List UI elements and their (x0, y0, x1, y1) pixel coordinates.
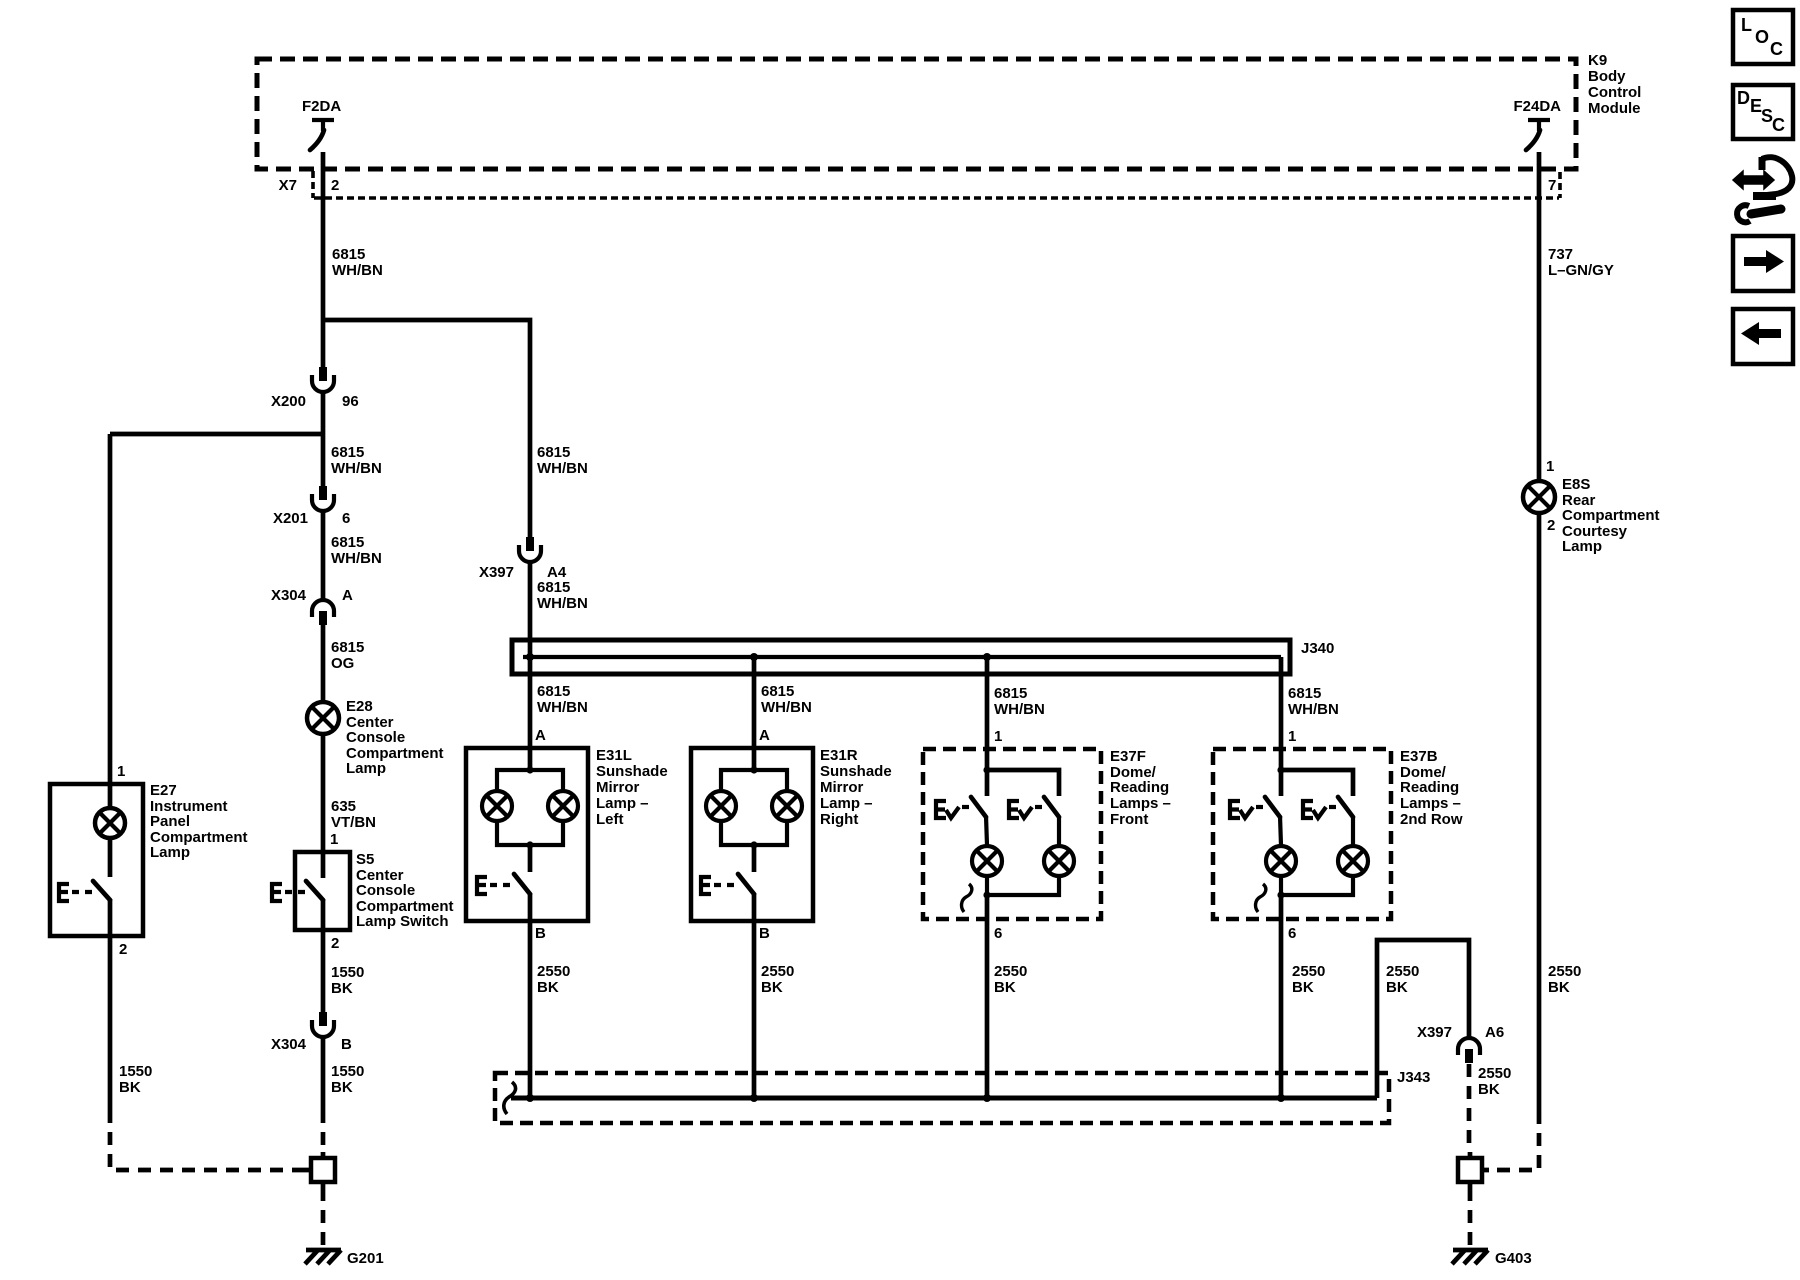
svg-text:6: 6 (994, 925, 1002, 942)
svg-text:BK: BK (537, 979, 559, 996)
svg-text:BK: BK (994, 979, 1016, 996)
svg-text:6815: 6815 (332, 246, 365, 263)
wire label 6815 WH/BN (E37F) (994, 685, 1045, 718)
svg-text:2550: 2550 (994, 963, 1027, 980)
E31R junction node top (750, 766, 757, 773)
svg-text:1550: 1550 (331, 1063, 364, 1080)
svg-text:Lamps –: Lamps – (1400, 795, 1461, 812)
svg-text:BK: BK (1478, 1081, 1500, 1098)
svg-text:2550: 2550 (761, 963, 794, 980)
svg-text:O: O (1755, 27, 1769, 47)
svg-text:L–GN/GY: L–GN/GY (1548, 262, 1614, 279)
svg-text:1550: 1550 (119, 1063, 152, 1080)
svg-text:6815: 6815 (331, 444, 364, 461)
svg-text:737: 737 (1548, 246, 1573, 263)
svg-text:Panel: Panel (150, 813, 190, 830)
E31R junction node bottom (750, 841, 757, 848)
switch S5 contact (272, 881, 323, 901)
svg-text:Control: Control (1588, 84, 1641, 101)
svg-text:Lamps –: Lamps – (1110, 795, 1171, 812)
E37F exit wire to J343 (985, 895, 990, 1098)
svg-text:E27: E27 (150, 782, 177, 799)
lamp E31L box (466, 748, 588, 921)
LOC icon box (1733, 10, 1793, 64)
wire E28 to S5 (321, 734, 326, 878)
wire J340 to E37B (1279, 657, 1284, 770)
E37F switch 2 (1009, 797, 1059, 818)
svg-text:E8S: E8S (1562, 476, 1590, 493)
svg-text:2: 2 (1547, 517, 1555, 534)
dome lamp E37F dashed box (923, 749, 1101, 919)
svg-text:X201: X201 (273, 510, 308, 527)
svg-text:A6: A6 (1485, 1024, 1504, 1041)
svg-text:1: 1 (1546, 458, 1554, 475)
svg-text:B: B (341, 1036, 352, 1053)
svg-text:BK: BK (1292, 979, 1314, 996)
junction node (J343 / E37B) (1277, 1094, 1285, 1102)
svg-text:6815: 6815 (761, 683, 794, 700)
connector X397 pin A6 (1417, 1024, 1504, 1063)
svg-text:Reading: Reading (1400, 779, 1459, 796)
ground G201 (305, 1250, 384, 1267)
wire label 2550 BK (E37B) (1292, 963, 1325, 996)
svg-text:Reading: Reading (1110, 779, 1169, 796)
wire label 6815 WH/BN (331, 444, 382, 477)
svg-text:BK: BK (331, 1079, 353, 1096)
E37B junction node top (1277, 766, 1284, 773)
svg-text:X200: X200 (271, 393, 306, 410)
svg-text:G201: G201 (347, 1250, 384, 1267)
switch S5 box (295, 852, 350, 930)
svg-text:Lamp: Lamp (346, 760, 386, 777)
svg-text:Sunshade: Sunshade (596, 763, 668, 780)
ground junction splice square (left) (304, 1152, 335, 1188)
junction node (J343 / E37F) (983, 1094, 991, 1102)
E37B lamp 1 (1266, 816, 1296, 895)
wire label 2550 BK (E37F) (994, 963, 1027, 996)
svg-text:A: A (535, 727, 546, 744)
svg-text:WH/BN: WH/BN (994, 701, 1045, 718)
E37F lamp 1 (972, 816, 1002, 895)
E31R lamp 2 (772, 791, 802, 821)
wire X201 to X304 (321, 512, 326, 599)
E31L Sunshade Mirror Lamp Left label (596, 747, 668, 828)
junction node (J343 / E31L) (526, 1094, 534, 1102)
svg-text:B: B (535, 925, 546, 942)
E37F twist hook (962, 884, 972, 912)
svg-text:Console: Console (346, 729, 405, 746)
svg-text:1: 1 (330, 831, 338, 848)
E31R lamp bridge top (721, 770, 787, 790)
svg-text:G403: G403 (1495, 1250, 1532, 1267)
connector X304 pin A (271, 587, 353, 625)
svg-text:1550: 1550 (331, 964, 364, 981)
E27 internal wire (108, 838, 113, 877)
E37B junction node bottom (1277, 891, 1284, 898)
svg-text:BK: BK (119, 1079, 141, 1096)
svg-text:6815: 6815 (537, 444, 570, 461)
E31R center wire (752, 845, 757, 872)
svg-text:Lamp –: Lamp – (820, 795, 873, 812)
svg-text:Front: Front (1110, 811, 1148, 828)
svg-text:BK: BK (761, 979, 783, 996)
svg-text:WH/BN: WH/BN (537, 460, 588, 477)
svg-text:F2DA: F2DA (302, 98, 341, 115)
dashed ground wire from X397 A6 (1467, 1064, 1472, 1152)
wire label 6815 WH/BN (E37B) (1288, 685, 1339, 718)
junction node (J340 / X397 branch) (526, 653, 534, 661)
svg-text:2: 2 (119, 941, 127, 958)
DESC icon box (1733, 85, 1793, 139)
ground junction splice square (right) (1458, 1152, 1489, 1188)
svg-text:Lamp: Lamp (1562, 538, 1602, 555)
wire F2DA to X200 (321, 152, 326, 367)
svg-text:Right: Right (820, 811, 858, 828)
E31R lamp 1 (706, 791, 736, 821)
svg-text:Lamp: Lamp (150, 844, 190, 861)
svg-text:2550: 2550 (1292, 963, 1325, 980)
wire label 1550 BK (331, 1063, 364, 1096)
svg-text:96: 96 (342, 393, 359, 410)
E8S Rear Compartment Courtesy Lamp label (1562, 476, 1660, 555)
svg-text:X304: X304 (271, 587, 307, 604)
wire label 1550 BK (331, 964, 364, 997)
E31L junction node bottom (526, 841, 533, 848)
wire label 6815 WH/BN (E31R) (761, 683, 812, 716)
fuse F2DA (302, 98, 341, 150)
svg-text:Sunshade: Sunshade (820, 763, 892, 780)
svg-text:J343: J343 (1397, 1069, 1430, 1086)
wire label 6815 WH/BN (331, 534, 382, 567)
svg-text:2550: 2550 (1386, 963, 1419, 980)
wire label 6815 WH/BN (E31L) (537, 683, 588, 716)
wire X304 B down (321, 1038, 326, 1110)
splice J343 dashed box (495, 1069, 1430, 1123)
E28 Center Console Compartment Lamp label (346, 698, 444, 777)
wire label 6815 OG (331, 639, 364, 672)
lamp E27 box (50, 784, 143, 936)
svg-text:Compartment: Compartment (1562, 507, 1660, 524)
svg-text:6: 6 (342, 510, 350, 527)
dashed wire to G201 (321, 1188, 326, 1246)
E37B branch link (1281, 770, 1353, 796)
connector X201 pin 6 (273, 486, 350, 527)
svg-text:OG: OG (331, 655, 354, 672)
svg-text:E37F: E37F (1110, 748, 1146, 765)
svg-text:VT/BN: VT/BN (331, 814, 376, 831)
wire label 6815 WH/BN (below A4) (537, 579, 588, 612)
junction node (J340 / E31R branch) (750, 653, 758, 661)
K9 Body Control Module label (1588, 52, 1641, 117)
svg-text:2: 2 (331, 935, 339, 952)
svg-text:WH/BN: WH/BN (331, 460, 382, 477)
connector X304 pin B (271, 1012, 352, 1053)
E37F Dome Reading Lamps Front label (1110, 748, 1171, 828)
wire label 2550 BK (below A6) (1478, 1065, 1511, 1098)
E31L switch contact (477, 874, 530, 894)
E31L center wire (528, 845, 533, 872)
lamp E31R box (691, 748, 813, 921)
svg-text:X7: X7 (279, 177, 297, 194)
wire label 635 VT/BN (331, 798, 376, 831)
connector X200 pin 96 (271, 367, 359, 410)
E31L junction node top (526, 766, 533, 773)
schematic navigation icon (1733, 157, 1792, 222)
svg-text:6815: 6815 (994, 685, 1027, 702)
svg-text:7: 7 (1548, 177, 1556, 194)
wire E8S down (1537, 513, 1542, 1111)
E27 exit wire (108, 899, 113, 1110)
svg-text:WH/BN: WH/BN (537, 595, 588, 612)
junction node (J340 / E37F branch) (983, 653, 991, 661)
E37B Dome Reading Lamps 2nd Row label (1400, 748, 1463, 828)
svg-text:E31L: E31L (596, 747, 632, 764)
E31R switch contact (701, 874, 754, 894)
svg-text:C: C (1770, 39, 1783, 59)
wire branch to X397 A4 (323, 320, 530, 537)
wire X200 to X201 (321, 393, 326, 486)
connector X7 dashed strip (279, 171, 1560, 198)
wire S5 to X304 B (321, 899, 326, 1012)
J343 bus wire (511, 1096, 1377, 1101)
svg-text:BK: BK (331, 980, 353, 997)
wire J340 to E31R (752, 657, 757, 770)
svg-text:E31R: E31R (820, 747, 858, 764)
svg-text:2550: 2550 (1548, 963, 1581, 980)
svg-text:6815: 6815 (537, 579, 570, 596)
svg-text:6815: 6815 (331, 534, 364, 551)
E31L lamp bridge bottom (497, 822, 563, 845)
E37F branch link (987, 770, 1059, 796)
J343 twist hook (504, 1082, 516, 1114)
svg-text:1: 1 (994, 728, 1002, 745)
E31L lamp 2 (548, 791, 578, 821)
svg-text:S5: S5 (356, 851, 374, 868)
E37B lamp 2 (1281, 816, 1368, 895)
svg-text:D: D (1737, 88, 1750, 108)
E31L lamp bridge top (497, 770, 563, 790)
svg-text:1: 1 (117, 763, 125, 780)
svg-text:X397: X397 (1417, 1024, 1452, 1041)
wire F24DA to E8S (1537, 152, 1542, 481)
svg-text:6: 6 (1288, 925, 1296, 942)
dashed ground wire from E8S (1489, 1111, 1539, 1170)
svg-text:2550: 2550 (537, 963, 570, 980)
E31R lamp bridge bottom (721, 822, 787, 845)
E37F junction node bottom (983, 891, 990, 898)
wire label 6815 WH/BN (above A4) (537, 444, 588, 477)
svg-text:B: B (759, 925, 770, 942)
svg-text:WH/BN: WH/BN (332, 262, 383, 279)
wire label 1550 BK (119, 1063, 152, 1096)
svg-text:6815: 6815 (331, 639, 364, 656)
E31R exit wire to J343 (752, 893, 757, 1098)
svg-text:F24DA: F24DA (1513, 98, 1561, 115)
svg-text:Lamp Switch: Lamp Switch (356, 913, 449, 930)
svg-text:X397: X397 (479, 564, 514, 581)
svg-text:E37B: E37B (1400, 748, 1438, 765)
svg-text:J340: J340 (1301, 640, 1334, 657)
forward arrow icon box (1733, 236, 1793, 291)
wire label 2550 BK (E8S) (1548, 963, 1581, 996)
E27 Instrument Panel Compartment Lamp label (150, 782, 248, 861)
svg-text:1: 1 (1288, 728, 1296, 745)
svg-text:WH/BN: WH/BN (761, 699, 812, 716)
svg-text:A: A (342, 587, 353, 604)
svg-text:2: 2 (331, 177, 339, 194)
dashed wire to G403 (1468, 1188, 1473, 1246)
svg-text:WH/BN: WH/BN (1288, 701, 1339, 718)
svg-text:BK: BK (1548, 979, 1570, 996)
connector X397 pin A4 (479, 537, 567, 581)
E31R Sunshade Mirror Lamp Right label (820, 747, 892, 828)
svg-text:C: C (1772, 115, 1785, 135)
svg-text:Lamp –: Lamp – (596, 795, 649, 812)
svg-text:Body: Body (1588, 68, 1626, 85)
wire X304 to E28 (321, 625, 326, 702)
E31L exit wire to J343 (528, 893, 533, 1098)
back arrow icon box (1733, 309, 1793, 364)
svg-text:WH/BN: WH/BN (331, 550, 382, 567)
svg-text:635: 635 (331, 798, 356, 815)
svg-text:6815: 6815 (537, 683, 570, 700)
E37F lamp 2 (987, 816, 1074, 895)
svg-text:Left: Left (596, 811, 624, 828)
junction node (J343 / E31R) (750, 1094, 758, 1102)
wire label 2550 BK (jog) (1386, 963, 1419, 996)
E37F junction node top (983, 766, 990, 773)
svg-text:6815: 6815 (1288, 685, 1321, 702)
splice pack J340 (512, 640, 1334, 674)
wire label 737 L-GN/GY (1548, 246, 1614, 279)
E37F switch 1 (936, 797, 986, 818)
svg-text:2550: 2550 (1478, 1065, 1511, 1082)
svg-text:2nd Row: 2nd Row (1400, 811, 1463, 828)
svg-text:E28: E28 (346, 698, 373, 715)
dashed ground wire from E27 (110, 1110, 304, 1170)
svg-text:K9: K9 (1588, 52, 1607, 69)
svg-text:L: L (1741, 15, 1752, 35)
E37B switch 1 (1230, 797, 1280, 818)
fuse F24DA (1513, 98, 1561, 150)
dome lamp E37B dashed box (1213, 749, 1391, 919)
svg-text:Mirror: Mirror (596, 779, 640, 796)
wire J340 to E37F (985, 657, 990, 770)
wire label 6815 WH/BN (332, 246, 383, 279)
svg-text:Mirror: Mirror (820, 779, 864, 796)
E37B exit wire to J343 (1279, 895, 1284, 1098)
svg-text:Module: Module (1588, 100, 1641, 117)
svg-text:Console: Console (356, 882, 415, 899)
svg-text:BK: BK (1386, 979, 1408, 996)
K9 Body Control Module dashed box (257, 59, 1576, 169)
ground G403 (1452, 1250, 1532, 1267)
svg-text:X304: X304 (271, 1036, 307, 1053)
wire J343 to X397 A6 (1377, 940, 1469, 1098)
E27 switch contact (59, 881, 110, 901)
svg-text:WH/BN: WH/BN (537, 699, 588, 716)
S5 Center Console Compartment Lamp Switch label (356, 851, 454, 930)
lamp E8S (1523, 481, 1555, 513)
E27 lamp symbol (95, 808, 125, 838)
svg-text:A: A (759, 727, 770, 744)
wire branch to E27 (110, 434, 323, 807)
E31L lamp 1 (482, 791, 512, 821)
lamp E28 (307, 702, 339, 734)
wire label 2550 BK (E31R) (761, 963, 794, 996)
wire X397 A4 to J340 (528, 563, 533, 770)
E37B twist hook (1256, 884, 1266, 912)
wire label 2550 BK (E31L) (537, 963, 570, 996)
E37B switch 2 (1303, 797, 1353, 818)
dashed ground wire from X304 B (321, 1110, 326, 1152)
